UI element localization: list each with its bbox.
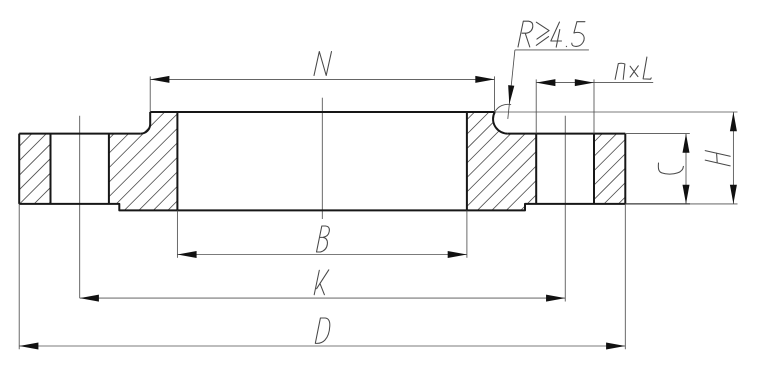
label x of nxL <box>630 66 638 77</box>
hatching: left hub section <box>23 112 266 210</box>
label K <box>314 270 329 295</box>
label C (rotated) <box>658 163 683 174</box>
dimension B: left arrow <box>177 251 196 258</box>
label >= of R>=4.5 <box>536 22 549 45</box>
main vertical centerline <box>321 98 323 219</box>
dimension N: extension lines <box>150 76 494 112</box>
dimension C: top extension line <box>625 134 690 204</box>
label N <box>314 52 332 76</box>
dimension D: left arrow <box>19 343 38 350</box>
dimension D: extension lines <box>19 204 625 349</box>
dimension D: right arrow <box>606 343 625 350</box>
dimension B: right arrow <box>448 251 467 258</box>
dimension nxL: right arrow <box>575 79 594 86</box>
flange top face right annulus <box>508 133 626 135</box>
dimension B: extension lines <box>177 210 467 257</box>
dimension D: dimension line <box>19 345 625 347</box>
label B <box>317 226 330 252</box>
right hub fillet (thick arc of fillet circle) <box>493 112 508 134</box>
label H (rotated) <box>705 151 730 166</box>
dimension nxL: dimension line extended under text <box>536 82 653 84</box>
dimension H: top arrow <box>730 112 737 131</box>
dimension H: top extension line <box>495 112 738 204</box>
dimension H: bottom arrow <box>730 185 737 204</box>
dimension H / C: bottom extension line <box>625 203 690 205</box>
dimension nxL: extension lines <box>536 79 653 133</box>
left bolt hole centerline <box>79 116 81 298</box>
flange bottom with central boss step <box>19 204 625 211</box>
bore right wall <box>466 112 468 210</box>
hatching: right hub section <box>376 112 633 210</box>
left bolt hole left wall <box>50 134 52 204</box>
flange top face left annulus <box>19 133 141 135</box>
dimension nxL: left arrow <box>536 79 555 86</box>
left hub fillet <box>141 112 151 134</box>
dimension K: right arrow <box>546 295 565 302</box>
flange right edge <box>624 134 626 204</box>
flange left edge <box>18 134 20 204</box>
dimension C: bottom arrow <box>683 185 690 204</box>
dimension B: dimension line <box>177 254 467 256</box>
dimension K: dimension line <box>80 297 566 299</box>
bore left wall <box>176 112 178 210</box>
hatching: left outer rim section <box>0 134 119 204</box>
label . of R>=4.5 <box>565 45 567 47</box>
dimension N: dimension line <box>150 78 494 80</box>
label L of nxL <box>643 57 651 79</box>
dimension K: left arrow <box>80 295 99 302</box>
label D <box>315 318 330 343</box>
dimension N: left arrow <box>150 76 169 83</box>
dimension H: dimension line <box>732 112 734 204</box>
right bolt hole right wall <box>593 134 595 204</box>
right bolt hole centerline <box>564 116 566 302</box>
dimension N: right arrow <box>475 76 494 83</box>
hatching: right outer rim section <box>532 134 689 204</box>
leader line for R>=4.5 with underline <box>508 50 589 119</box>
dimension C: top arrow <box>683 134 690 153</box>
raised face top <box>150 111 495 113</box>
label 5 of R>=4.5 <box>572 22 585 47</box>
thin arc over right fillet for R dimension <box>495 104 511 112</box>
label 4 of R>=4.5 <box>551 22 562 47</box>
left bolt hole right wall <box>108 134 110 204</box>
label R of R>=4.5 <box>518 21 533 47</box>
leader arrowhead on fillet arc <box>508 85 514 104</box>
right bolt hole left wall <box>535 134 537 204</box>
label n of nxL <box>615 63 625 79</box>
dimension C: dimension line <box>685 134 687 204</box>
